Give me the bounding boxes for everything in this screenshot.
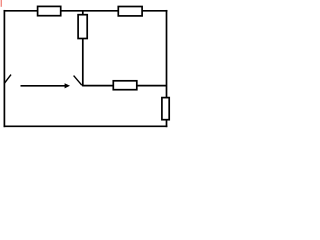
junction: middle branch corner [82, 85, 84, 87]
resistor R1 (top-left, horizontal) [38, 6, 61, 15]
wire: right rail [166, 11, 168, 127]
wire: bottom rail [4, 125, 166, 127]
wire: middle horizontal branch [83, 85, 167, 87]
red marker line (top-left edge artifact) [0, 0, 2, 7]
arrow (pointing right, toward middle junction) [21, 83, 71, 88]
resistor R2 (top-right, horizontal) [118, 7, 142, 16]
switch S1 blade (on left rail) [4, 75, 11, 84]
resistor R3 (middle branch, vertical) [78, 15, 87, 39]
wire: left rail [3, 11, 5, 127]
resistor R5 (right rail, vertical) [162, 98, 169, 120]
wire: top rail [4, 10, 166, 12]
switch S2 blade (at middle junction) [74, 76, 82, 86]
wire: middle vertical branch [82, 11, 84, 86]
resistor R4 (middle-right, horizontal) [113, 81, 137, 90]
